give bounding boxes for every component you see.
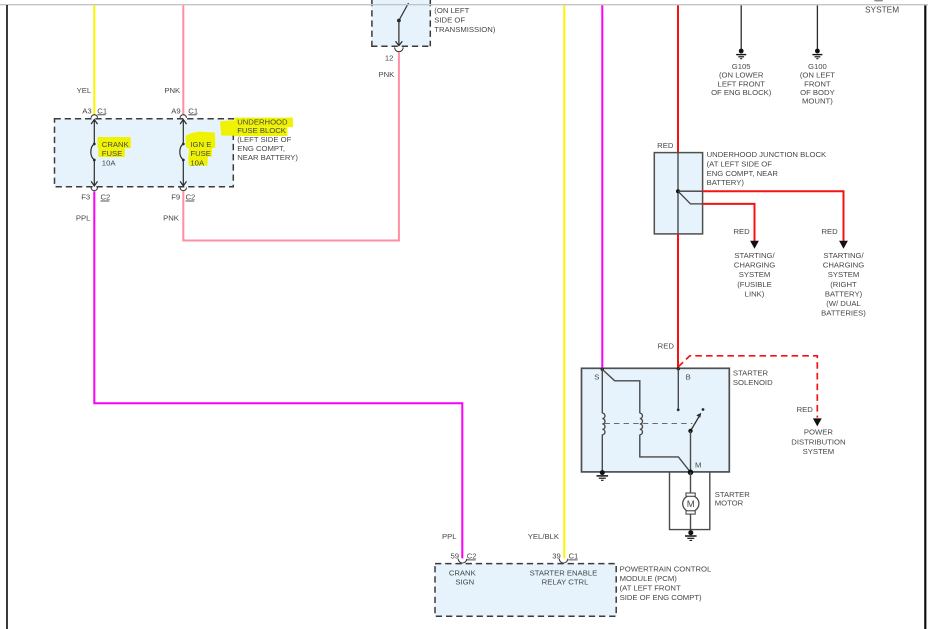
svg-text:IGN E: IGN E <box>190 140 211 149</box>
connector arc pin 39 <box>559 559 568 563</box>
arrow to right battery <box>839 241 848 249</box>
internal branch to fusible link feed <box>678 191 703 204</box>
svg-text:A3: A3 <box>82 106 91 115</box>
svg-text:C1: C1 <box>188 106 198 115</box>
svg-text:G100: G100 <box>808 62 827 71</box>
junction block internal wire <box>677 153 679 234</box>
wire RED dashed to power distribution <box>678 356 817 418</box>
svg-text:(AT LEFT FRONT: (AT LEFT FRONT <box>620 583 681 592</box>
label (ON LEFT SIDE OF TRANSMISSION) <box>434 6 496 34</box>
branch to coil 2 <box>602 369 640 413</box>
wire RED junction block to solenoid B <box>677 234 679 368</box>
highlight FUSE BLOCK <box>234 127 287 136</box>
svg-text:FRONT: FRONT <box>804 79 831 88</box>
svg-text:OF BODY: OF BODY <box>800 88 835 97</box>
svg-text:LEFT FRONT: LEFT FRONT <box>718 79 766 88</box>
svg-text:S: S <box>594 373 599 382</box>
fuse CRANK FUSE 10A <box>91 120 98 186</box>
right page border <box>924 5 926 629</box>
svg-text:BATTERY): BATTERY) <box>825 289 863 298</box>
svg-text:(ON LEFT: (ON LEFT <box>800 71 835 80</box>
svg-text:PPL: PPL <box>442 532 457 541</box>
ground wire G105 <box>740 5 742 49</box>
connector arc F3/C2 <box>91 188 97 191</box>
solenoid S lead <box>601 368 603 413</box>
svg-text:SYSTEM: SYSTEM <box>828 270 860 279</box>
label 59 C2 <box>450 552 476 561</box>
underhood junction block <box>654 153 702 234</box>
svg-text:POWERTRAIN CONTROL: POWERTRAIN CONTROL <box>620 564 712 573</box>
svg-text:SIDE OF: SIDE OF <box>434 16 465 25</box>
top page border <box>0 4 928 6</box>
svg-text:B: B <box>686 373 691 382</box>
wire YEL (to fuse A3) <box>93 5 95 114</box>
switch arrow to pin 12 <box>396 22 403 46</box>
svg-text:PNK: PNK <box>378 70 395 79</box>
svg-text:SIDE OF ENG COMPT): SIDE OF ENG COMPT) <box>620 593 702 602</box>
svg-text:CHARGING: CHARGING <box>823 261 864 270</box>
svg-text:A9: A9 <box>171 106 180 115</box>
connector arc pin 59 <box>458 559 467 563</box>
svg-text:MOUNT): MOUNT) <box>802 97 833 106</box>
svg-text:STARTER: STARTER <box>715 490 751 499</box>
label IGN E FUSE 10A <box>190 140 211 168</box>
transmission range switch box (cut at top) <box>371 0 431 46</box>
svg-text:C1: C1 <box>97 106 107 115</box>
label STARTER SOLENOID <box>733 369 773 387</box>
wire RED junction to starting/charging (fusible link) <box>703 204 755 241</box>
starter solenoid box <box>582 368 730 472</box>
svg-text:MOTOR: MOTOR <box>715 499 744 508</box>
label CRANK SIGN <box>449 568 477 586</box>
svg-text:DISTRIBUTION: DISTRIBUTION <box>791 437 845 446</box>
svg-text:TRANSMISSION): TRANSMISSION) <box>434 25 496 34</box>
label 39 C1 <box>552 552 578 561</box>
svg-text:PPL: PPL <box>76 214 91 223</box>
ground wire G100 <box>816 5 818 49</box>
label STARTER ENABLE RELAY CTRL <box>530 568 598 586</box>
ground G105 <box>736 49 746 59</box>
label STARTING/CHARGING SYSTEM (FUSIBLE LINK) <box>734 251 776 298</box>
svg-text:C2: C2 <box>186 193 196 202</box>
svg-text:10A: 10A <box>190 158 205 167</box>
svg-text:FUSE BLOCK: FUSE BLOCK <box>237 126 287 135</box>
svg-text:CHARGING: CHARGING <box>734 261 775 270</box>
svg-text:M: M <box>695 461 701 470</box>
switch contact dot <box>397 19 401 23</box>
svg-text:(FUSIBLE: (FUSIBLE <box>737 280 772 289</box>
svg-text:G105: G105 <box>732 62 751 71</box>
motor M1 <box>683 493 699 514</box>
svg-text:F9: F9 <box>171 193 180 202</box>
label STARTING/CHARGING SYSTEM (RIGHT BATTERY) <box>821 251 866 317</box>
connector arc F9/C2 <box>180 188 186 191</box>
wire PPL from F3 to PCM pin 59 <box>94 191 462 558</box>
svg-text:POWER: POWER <box>804 428 833 437</box>
svg-text:BATTERIES): BATTERIES) <box>821 308 866 317</box>
svg-text:UNDERHOOD: UNDERHOOD <box>237 117 288 126</box>
wire PNK (to fuse A9) <box>182 5 184 114</box>
svg-text:RED: RED <box>733 227 750 236</box>
switch blade <box>399 3 409 21</box>
internal branch to right battery feed <box>678 190 703 192</box>
solenoid B lead <box>677 368 679 408</box>
wire RED junction to starting/charging (right battery) <box>703 191 844 241</box>
pin 12 connector arc <box>395 47 404 51</box>
fuse IGN E FUSE 10A <box>180 120 187 186</box>
svg-text:(AT LEFT SIDE OF: (AT LEFT SIDE OF <box>707 159 773 168</box>
wire PPL from top to solenoid S <box>601 5 603 368</box>
wire RED from top to junction block <box>677 5 679 152</box>
underhood fuse block box <box>55 119 234 187</box>
label A3 C1 <box>82 106 107 115</box>
node at S terminal <box>601 368 604 371</box>
svg-text:SYSTEM: SYSTEM <box>865 4 899 14</box>
arm to M terminal <box>690 431 692 472</box>
svg-text:59: 59 <box>450 552 459 561</box>
coil 2 lead to M <box>640 435 691 473</box>
svg-text:FUSE: FUSE <box>190 149 211 158</box>
svg-text:NEAR BATTERY): NEAR BATTERY) <box>237 153 298 162</box>
label G100 <box>800 62 835 106</box>
contact at B <box>677 408 680 411</box>
ground G100 <box>812 49 822 59</box>
ground at solenoid S coil <box>597 470 609 480</box>
arrow to fusible link <box>750 241 759 249</box>
svg-text:BATTERY): BATTERY) <box>707 178 745 187</box>
highlight FUSE (left) <box>98 148 124 157</box>
label F3 C2 <box>81 193 110 202</box>
label A9 C1 <box>171 106 198 115</box>
svg-text:STARTER: STARTER <box>733 369 769 378</box>
svg-text:(ON LOWER: (ON LOWER <box>719 71 764 80</box>
svg-text:MODULE (PCM): MODULE (PCM) <box>620 574 678 583</box>
svg-text:RED: RED <box>657 141 674 150</box>
svg-text:LINK): LINK) <box>745 289 765 298</box>
svg-text:C2: C2 <box>467 552 477 561</box>
switch arm with arrow <box>691 413 702 431</box>
label POWERTRAIN CONTROL MODULE <box>620 564 712 602</box>
highlight UNDERHOOD <box>234 118 293 128</box>
svg-text:ENG COMPT, NEAR: ENG COMPT, NEAR <box>707 169 779 178</box>
svg-text:PNK: PNK <box>163 214 180 223</box>
svg-text:C1: C1 <box>569 552 579 561</box>
coil 1 (pull-in winding) <box>602 413 605 434</box>
svg-text:F3: F3 <box>81 193 90 202</box>
svg-text:(LEFT SIDE OF: (LEFT SIDE OF <box>237 135 291 144</box>
label STARTER MOTOR <box>715 490 751 508</box>
svg-text:OF ENG BLOCK): OF ENG BLOCK) <box>711 88 772 97</box>
svg-text:C2: C2 <box>101 193 111 202</box>
connector arc A9/C1 <box>180 115 186 118</box>
svg-text:SOLENOID: SOLENOID <box>733 378 773 387</box>
highlight CRANK <box>98 137 131 148</box>
svg-text:M: M <box>687 499 695 510</box>
svg-text:STARTER ENABLE: STARTER ENABLE <box>530 568 598 577</box>
PCM box <box>435 564 616 617</box>
label POWER DISTRIBUTION SYSTEM <box>791 428 845 456</box>
svg-text:YEL: YEL <box>77 86 92 95</box>
svg-text:STARTING/: STARTING/ <box>734 251 775 260</box>
svg-text:UNDERHOOD JUNCTION BLOCK: UNDERHOOD JUNCTION BLOCK <box>707 150 827 159</box>
svg-text:(W/ DUAL: (W/ DUAL <box>826 299 861 308</box>
ground at starter motor <box>685 530 697 540</box>
label G105 <box>711 62 772 97</box>
junction node <box>676 189 680 193</box>
switch pivot <box>688 429 692 433</box>
svg-text:(RIGHT: (RIGHT <box>830 280 857 289</box>
node at B terminal <box>677 367 680 370</box>
motor lead to ground <box>690 514 692 531</box>
wire PNK from pin 12 down and left to fuse F9 <box>183 52 399 241</box>
label CRANK FUSE 10A <box>102 140 130 168</box>
svg-text:RED: RED <box>797 405 814 414</box>
highlighter marks <box>98 118 293 166</box>
svg-text:39: 39 <box>552 552 561 561</box>
svg-text:SYSTEM: SYSTEM <box>739 270 771 279</box>
coil 2 (hold-in winding) <box>640 413 643 434</box>
starter motor housing <box>670 472 710 530</box>
label F9 C2 <box>171 193 195 202</box>
svg-text:SYSTEM: SYSTEM <box>803 447 835 456</box>
svg-text:CRANK: CRANK <box>449 568 477 577</box>
svg-text:YEL/BLK: YEL/BLK <box>528 532 560 541</box>
mechanical link dashed <box>604 423 692 425</box>
svg-text:FUSE: FUSE <box>102 149 123 158</box>
heading fragment sliver above border <box>874 0 882 1</box>
svg-text:SIGN: SIGN <box>455 577 474 586</box>
wire YEL/BLK from top to PCM pin 39 <box>563 5 565 558</box>
fixed contact <box>702 408 705 411</box>
arrow to power distribution <box>813 418 822 426</box>
coil 1 lead to ground <box>601 435 603 471</box>
motor lead from M <box>690 472 692 493</box>
svg-text:ENG COMPT,: ENG COMPT, <box>237 144 285 153</box>
label UNDERHOOD JUNCTION BLOCK <box>707 150 827 187</box>
M terminal node <box>688 470 694 476</box>
svg-text:CRANK: CRANK <box>102 140 130 149</box>
highlight IGN E blob <box>186 132 216 166</box>
svg-text:RELAY CTRL: RELAY CTRL <box>542 577 589 586</box>
svg-text:12: 12 <box>385 53 394 62</box>
highlight left of UNDERHOOD <box>220 120 236 136</box>
label UNDERHOOD FUSE BLOCK <box>237 117 298 162</box>
svg-text:RED: RED <box>821 227 838 236</box>
svg-text:10A: 10A <box>102 158 117 167</box>
left page border <box>6 5 8 629</box>
svg-text:(ON LEFT: (ON LEFT <box>434 6 469 15</box>
svg-text:PNK: PNK <box>164 86 181 95</box>
svg-text:STARTING/: STARTING/ <box>823 251 864 260</box>
connector arc A3/C1 <box>91 115 97 118</box>
svg-text:RED: RED <box>658 341 675 350</box>
